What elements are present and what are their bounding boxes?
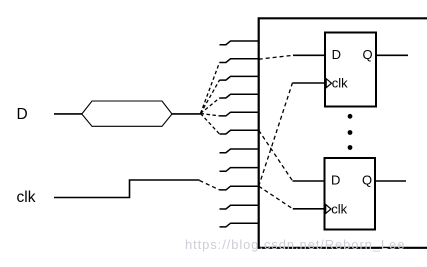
dashed net: clk to stub9 left end — [200, 181, 220, 190]
clock-edge stub 7 — [220, 149, 259, 153]
flip-flop U1 body — [325, 33, 376, 107]
wire: D trace right segment to fan node — [172, 113, 201, 115]
clock-edge stub 4 — [220, 94, 259, 98]
dashed net: stub9 junction to U2 clk input — [259, 186, 293, 209]
dashed net: fan D to stub6 — [201, 114, 220, 135]
svg-text:D: D — [332, 47, 341, 62]
svg-text:clk: clk — [331, 201, 347, 216]
dashed net: stub9 junction to U1 clk input — [259, 83, 293, 186]
chip boundary box (open right side) — [259, 18, 427, 248]
wire: U2 D input — [293, 180, 325, 182]
wire: clk trace (low, rising edge, high) — [54, 180, 200, 198]
svg-text:Q: Q — [362, 173, 372, 188]
ellipsis dot 1 — [348, 114, 353, 119]
ellipsis dot 2 — [348, 130, 353, 135]
dashed net: stub2 junction to U1 D input — [259, 55, 293, 59]
dashed net: fan D to stub4 — [201, 98, 220, 114]
wire: U1 D input — [293, 54, 326, 56]
clock-edge stub 5 — [220, 112, 259, 116]
wire: D trace left segment — [54, 113, 83, 115]
clock-edge stub 11 — [220, 223, 259, 227]
ellipsis dot 3 — [348, 145, 353, 150]
clock-edge stub 10 — [220, 205, 259, 209]
flip-flop U2 body — [325, 158, 376, 230]
U2 clk edge triangle — [326, 205, 331, 214]
dashed net: stub6 junction to U2 D input — [259, 130, 293, 181]
wire: U2 Q output — [375, 180, 406, 182]
svg-text:D: D — [17, 106, 28, 123]
dashed net: fan D to stub5 — [201, 114, 220, 116]
dashed net: fan D to stub3 — [201, 80, 220, 113]
clock-edge stub 2 — [220, 59, 259, 63]
svg-text:clk: clk — [332, 76, 348, 91]
wire: U1 Q output — [376, 54, 408, 56]
svg-text:https://blog.csdn.net/Reborn_L: https://blog.csdn.net/Reborn_Lee — [185, 237, 405, 252]
bus-valid hexagon on D — [82, 101, 172, 126]
clock-edge stub 9 — [220, 186, 259, 190]
svg-text:D: D — [331, 173, 340, 188]
svg-text:Q: Q — [363, 47, 373, 62]
clock-edge stub 8 — [220, 168, 259, 172]
wire: U2 clk input — [293, 208, 325, 210]
svg-text:clk: clk — [17, 189, 36, 206]
U1 clk edge triangle — [326, 79, 331, 88]
dashed net: fan D to stub2 — [201, 63, 220, 114]
wire: U1 clk input — [292, 82, 325, 84]
clock-edge stub 6 — [220, 130, 259, 134]
clock-edge stub 3 — [220, 76, 259, 80]
clock-edge stub 1 — [220, 41, 259, 45]
